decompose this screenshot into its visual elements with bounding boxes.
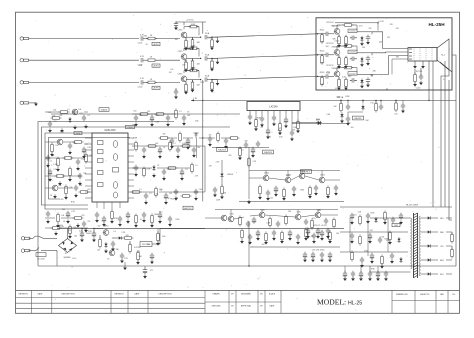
- capacitor pin1 LA7240: [248, 114, 252, 120]
- resistor R28: [55, 175, 66, 178]
- load resistor ch3: [207, 79, 212, 81]
- ground GC8: [296, 240, 300, 244]
- svg-text:0.1: 0.1: [185, 169, 187, 171]
- svg-text:0.1: 0.1: [67, 109, 69, 111]
- resistor R101: [146, 37, 157, 40]
- capacitor RC8: [296, 234, 300, 240]
- ground at Q101 emitter: [184, 46, 188, 50]
- svg-text:0.022: 0.022: [416, 88, 421, 90]
- boxed part number U23: [348, 72, 357, 76]
- svg-text:C945: C945: [296, 212, 300, 214]
- wire y123 to x348 drop: [322, 123, 348, 125]
- transistor Q315: [221, 215, 227, 221]
- wire routing rect third: [45, 133, 92, 209]
- transistor Q101: [181, 32, 187, 38]
- wire diode branch y122: [292, 122, 317, 124]
- capacitor C309: [346, 116, 350, 122]
- secondary load resistor R502: [451, 248, 454, 259]
- ground GT9: [380, 264, 384, 268]
- zener D201: [360, 36, 363, 42]
- capacitor BB2: [351, 271, 355, 277]
- capacitor BB3: [359, 271, 363, 278]
- capacitor BB4: [368, 271, 372, 277]
- svg-text:R203: R203: [320, 72, 325, 74]
- capacitor cluster C91: [306, 228, 310, 235]
- ground G84: [247, 200, 251, 204]
- ground GT3: [383, 220, 387, 224]
- svg-text:104: 104: [362, 47, 365, 49]
- svg-text:C95 C96 470U: C95 C96 470U: [312, 250, 325, 252]
- capacitor C29: [78, 173, 82, 179]
- svg-text:R212 1K: R212 1K: [326, 43, 334, 45]
- wire primary bottom lead: [370, 271, 411, 273]
- svg-text:102: 102: [368, 28, 371, 30]
- svg-text:D880: D880: [104, 226, 109, 228]
- ground GR10: [152, 173, 156, 177]
- connector ground 1: [413, 64, 417, 68]
- capacitor RA9: [334, 185, 338, 191]
- wire row2 collector stubs: [231, 210, 318, 217]
- ground load ch1: [210, 46, 214, 50]
- wire stage ch1 to connector: [357, 31, 372, 33]
- resistor R42: [155, 113, 166, 116]
- svg-text:1/2W: 1/2W: [216, 200, 220, 202]
- svg-text:104: 104: [332, 26, 335, 28]
- ground GIB7: [142, 218, 146, 222]
- ground GC12: [328, 239, 332, 243]
- wire rail y114: [51, 113, 240, 115]
- vertical bus x204 long: [202, 100, 204, 201]
- capacitor C82: [256, 141, 260, 147]
- resistor RC9: [305, 228, 308, 239]
- input cap C201: [326, 32, 328, 36]
- ground ZD401: [104, 249, 108, 253]
- ground D201: [360, 42, 364, 46]
- bridge diode marks: [62, 242, 65, 246]
- svg-text:R202: R202: [320, 50, 325, 52]
- capacitor C23: [48, 121, 52, 127]
- capacitor C44: [182, 115, 186, 121]
- ground D203: [360, 84, 364, 88]
- ground GC3: [256, 236, 260, 240]
- speaker connector block: [408, 48, 437, 62]
- svg-text:C1815: C1815: [320, 174, 325, 176]
- svg-text:HL-25H: HL-25H: [428, 22, 445, 27]
- svg-text:100K: 100K: [191, 24, 196, 26]
- resistor RC4: [265, 232, 268, 243]
- capacitor IB4: [118, 216, 122, 222]
- output cap C211: [350, 36, 356, 40]
- svg-text:2SD880 Y: 2SD880 Y: [331, 68, 341, 70]
- ground G81: [251, 153, 255, 157]
- secondary tap D50: [421, 217, 427, 219]
- capacitor C30: [74, 185, 78, 191]
- wire collector rail row2: [215, 209, 338, 211]
- svg-text:0.022: 0.022: [335, 41, 340, 43]
- wire ground rail y266: [38, 265, 456, 267]
- ground GR5: [142, 154, 146, 158]
- resistor IB3: [111, 210, 114, 221]
- svg-text:APPROVAL: APPROVAL: [241, 305, 251, 308]
- transistor Q312: [259, 212, 265, 218]
- resistor R33: [73, 217, 84, 220]
- svg-text:R/30: R/30: [300, 189, 304, 191]
- wire transformer section rail y252: [340, 251, 408, 253]
- wire row2 stitch: [234, 215, 338, 219]
- svg-text:R/30: R/30: [132, 125, 136, 127]
- boxed label IC305: [301, 170, 312, 174]
- wire vertical bus V1 from connector: [428, 61, 430, 100]
- resistor R62: [359, 235, 362, 246]
- capacitor C60: [350, 213, 354, 220]
- bias resistor R243: [345, 77, 348, 88]
- svg-text:R12: R12: [348, 76, 351, 78]
- svg-text:C945: C945: [370, 212, 374, 214]
- wire vertical bus V4: [452, 55, 456, 266]
- cap C405: [150, 253, 154, 260]
- svg-text:100: 100: [175, 197, 178, 199]
- ground R241: [344, 43, 348, 47]
- wire C103 to R103: [143, 81, 148, 83]
- diode D305: [220, 172, 223, 178]
- diode ZD301: [362, 100, 364, 103]
- svg-text:C945: C945: [175, 219, 179, 221]
- diode D307: [316, 122, 322, 125]
- capacitor C83: [213, 187, 217, 193]
- svg-text:R/30: R/30: [326, 73, 330, 75]
- capacitor C47: [176, 147, 180, 153]
- ground load ch2: [210, 67, 214, 71]
- zener D202: [360, 57, 363, 63]
- svg-text:470: 470: [68, 230, 71, 232]
- output coupling cap C113: [205, 77, 207, 81]
- ground G71: [170, 144, 174, 148]
- wire jack J4 stub: [29, 102, 36, 104]
- AC input jack P1: [21, 237, 30, 240]
- ground G72: [186, 145, 190, 149]
- feedback resistor R222: [343, 45, 354, 48]
- bias resistor R242: [345, 56, 348, 67]
- wire box input node ch2: [317, 54, 318, 55]
- capacitor C103: [141, 80, 143, 84]
- svg-text:C34: C34: [288, 211, 291, 213]
- svg-text:0.1: 0.1: [149, 193, 151, 195]
- wire stub cluster: [307, 228, 309, 229]
- IC1 pin ticks right: [128, 138, 134, 198]
- svg-text:C945: C945: [364, 251, 368, 253]
- svg-text:102: 102: [262, 244, 265, 246]
- resistor R25: [57, 157, 60, 168]
- wire horizontal collector line y207: [340, 206, 452, 208]
- resistor R65: [381, 255, 384, 266]
- transistor Q4: [52, 185, 58, 191]
- wire rail below box: [318, 99, 456, 101]
- svg-text:2SD880 Y: 2SD880 Y: [331, 47, 341, 49]
- resistor R403 vertical: [129, 243, 132, 254]
- svg-text:JAN.: JAN.: [440, 293, 444, 296]
- svg-text:YEL: YEL: [440, 246, 444, 248]
- boxed part number U21: [348, 29, 357, 33]
- value label box ch1: [152, 42, 160, 46]
- capacitor C27: [76, 159, 80, 165]
- ground C410: [143, 274, 147, 278]
- resistor RB1: [239, 216, 242, 227]
- resistor R31: [79, 191, 90, 194]
- svg-text:SHEET NO.: SHEET NO.: [420, 294, 430, 296]
- svg-text:KIA4558: KIA4558: [264, 151, 273, 154]
- svg-text:C945: C945: [229, 214, 233, 216]
- capacitor C21: [82, 115, 86, 121]
- boxed label IC304: [263, 150, 274, 154]
- ground C120: [174, 26, 178, 30]
- capacitor C301: [347, 100, 349, 103]
- regulator resistor R401: [99, 238, 102, 249]
- svg-text:470: 470: [60, 199, 63, 201]
- svg-text:470: 470: [396, 28, 399, 30]
- ground at J4: [34, 102, 38, 106]
- capacitor C63: [399, 213, 403, 220]
- svg-text:KIA78L9: KIA78L9: [302, 170, 311, 173]
- feedback resistor R111: [184, 27, 199, 36]
- wire vertical bus V2: [432, 61, 434, 207]
- wire jack J2 to coupling cap: [29, 59, 139, 61]
- svg-text:102: 102: [229, 155, 232, 157]
- svg-text:104: 104: [97, 250, 100, 252]
- svg-text:S1WB60: S1WB60: [63, 257, 70, 259]
- transistor Q3: [57, 139, 63, 145]
- svg-text:LA7240: LA7240: [269, 105, 278, 108]
- ground GL22: [54, 231, 58, 235]
- wire top rail drop: [377, 23, 379, 31]
- svg-text:104: 104: [61, 215, 64, 217]
- resistor R48: [143, 167, 146, 178]
- ground GL2: [60, 128, 64, 132]
- driver transistor Q201: [334, 28, 340, 34]
- svg-text:R211 1K: R211 1K: [326, 22, 334, 24]
- svg-text:0.1: 0.1: [173, 143, 175, 145]
- AC input jack P2: [21, 249, 30, 252]
- svg-text:100K: 100K: [191, 46, 196, 48]
- power transformer T1 core: [414, 213, 418, 278]
- ground GL9: [56, 167, 60, 171]
- resistor R404: [137, 251, 140, 262]
- svg-text:KIA7805: KIA7805: [354, 117, 361, 120]
- svg-text:0.1: 0.1: [179, 111, 181, 113]
- wire left vertical to rail: [37, 265, 39, 267]
- svg-text:MODEL:: MODEL:: [317, 298, 346, 307]
- capacitor RB5: [276, 221, 280, 227]
- output coupling cap C111: [205, 35, 207, 39]
- wire primary top lead: [370, 217, 411, 219]
- wire ch2 route to connector pin2: [372, 51, 408, 54]
- resistor RC1: [241, 229, 244, 240]
- capacitor C42: [150, 115, 154, 122]
- wire R103 to Q103: [155, 81, 180, 83]
- diode D2: [68, 117, 71, 123]
- value label box ch2: [152, 64, 160, 68]
- capacitor C51: [180, 169, 184, 176]
- wire switch to bridge: [41, 250, 57, 252]
- capacitor C66: [378, 237, 382, 243]
- wire transformer section rail y232: [340, 231, 408, 233]
- resistor R45: [147, 145, 158, 148]
- wire C102 to R102: [143, 59, 148, 61]
- resistor R73: [217, 132, 220, 143]
- capacitor RB9: [324, 218, 328, 224]
- svg-text:NO.: NO.: [452, 294, 456, 296]
- HL-25H enclosure box: [316, 18, 452, 90]
- resistor R71: [159, 137, 170, 140]
- wire preamp rail y100: [191, 99, 318, 101]
- resistor R52: [155, 187, 158, 198]
- capacitor RC11: [320, 230, 324, 237]
- resistor R102: [146, 59, 157, 62]
- resistor R24: [73, 141, 84, 144]
- svg-text:4.7K/2W: 4.7K/2W: [134, 247, 141, 249]
- ground Q203 emitter: [337, 86, 341, 90]
- capacitor C55: [194, 189, 198, 195]
- ground GIB4: [118, 222, 122, 226]
- horn speaker symbol: [437, 39, 449, 70]
- svg-text:REVISION: REVISION: [18, 294, 28, 296]
- svg-text:R/30: R/30: [384, 238, 388, 240]
- svg-text:R/30: R/30: [79, 113, 83, 115]
- capacitor RA7: [314, 185, 318, 191]
- svg-text:C1815: C1815: [127, 127, 133, 129]
- svg-text:104: 104: [147, 244, 150, 246]
- resistor RB6: [285, 215, 288, 226]
- ground GR15: [174, 196, 178, 200]
- feedback resistor R223: [343, 66, 354, 69]
- capacitor BB5: [376, 271, 380, 278]
- shield ground ch3: [216, 81, 220, 85]
- ground GT11: [370, 259, 374, 263]
- ground GT6: [368, 239, 372, 243]
- boxed part number U22: [348, 50, 357, 54]
- resistor R46: [169, 141, 172, 152]
- capacitor IB5: [126, 212, 130, 219]
- boxed label VR1: [74, 131, 82, 135]
- svg-text:R201: R201: [320, 29, 325, 31]
- secondary load resistor R501: [451, 233, 454, 244]
- emitter resistor R122: [185, 59, 187, 62]
- boxed label IC307: [353, 116, 364, 120]
- regulator IC MC7815 box: [140, 242, 152, 247]
- capacitor B3: [320, 252, 324, 258]
- cap C221: [366, 35, 370, 41]
- svg-text:R/30: R/30: [114, 218, 118, 220]
- svg-text:ALPS: ALPS: [153, 65, 159, 68]
- ground at Q103 emitter: [184, 90, 188, 94]
- ground GA9: [334, 191, 338, 195]
- svg-text:HL-25: HL-25: [348, 300, 362, 306]
- capacitor IB7: [142, 212, 146, 218]
- capacitor C71: [170, 138, 174, 144]
- node junction y100 dots: [340, 100, 341, 101]
- capacitor C102: [141, 58, 143, 62]
- wire stage3 output to HL-25H box: [212, 76, 318, 79]
- wire PSU +rail y228: [57, 227, 205, 229]
- svg-text:HL-2: HL-2: [441, 55, 445, 57]
- zener D203: [360, 78, 363, 84]
- capacitor C65: [368, 233, 372, 240]
- svg-text:1/4W: 1/4W: [182, 143, 186, 145]
- wire Q103 to output bus: [186, 79, 201, 81]
- input cap C202: [326, 53, 328, 57]
- ground GR11: [162, 176, 166, 180]
- capacitor pin7 LA7240: [285, 114, 287, 117]
- svg-text:4.7U: 4.7U: [140, 78, 145, 80]
- wire right cluster rails: [132, 114, 205, 192]
- capacitor RC7: [288, 230, 292, 237]
- resistor R301: [340, 100, 342, 103]
- wire reg out: [152, 243, 160, 245]
- svg-text:DRAWING NO.: DRAWING NO.: [396, 293, 409, 296]
- svg-text:KIA4558: KIA4558: [218, 148, 227, 151]
- svg-text:AC 250V: AC 250V: [37, 258, 45, 261]
- capacitor RC2: [248, 234, 252, 240]
- ground GL7: [82, 154, 86, 158]
- ground GA6: [308, 194, 312, 198]
- ground GL12: [58, 181, 62, 185]
- resistor R44: [135, 141, 138, 152]
- capacitor C31: [46, 211, 50, 217]
- capacitor RB3: [252, 217, 256, 224]
- svg-text:D309: D309: [316, 119, 320, 121]
- svg-text:1/4W: 1/4W: [133, 137, 137, 139]
- ground GIB1: [95, 218, 99, 222]
- capacitor C24: [68, 143, 72, 149]
- PSU ground arrow: [123, 266, 127, 270]
- capacitor C33: [82, 221, 86, 227]
- capacitor C74: [224, 138, 228, 144]
- IC1 internal blocks: [98, 141, 119, 199]
- wire vertical bus V5: [444, 61, 446, 207]
- ground Q202 emitter: [337, 64, 341, 68]
- ground G73: [208, 142, 212, 146]
- ground GL16: [64, 195, 68, 199]
- ground GC5: [272, 236, 276, 240]
- transistor Q311: [228, 216, 234, 222]
- IC1 pin ticks left: [85, 138, 92, 198]
- input jack J2: [20, 59, 29, 62]
- resistor RA4: [283, 188, 286, 199]
- ground G74: [224, 144, 228, 148]
- svg-text:470: 470: [335, 88, 338, 90]
- svg-text:0.1: 0.1: [49, 160, 52, 162]
- ground R242: [344, 64, 348, 68]
- svg-text:220: 220: [390, 24, 393, 26]
- svg-text:RED: RED: [440, 232, 445, 234]
- wire row1 collector stubs: [266, 171, 322, 178]
- capacitor C121: [174, 89, 178, 95]
- ground GA3: [274, 192, 278, 196]
- boxed label IC303: [217, 148, 228, 152]
- ground GL20: [66, 219, 70, 223]
- resistor R302: [375, 100, 377, 103]
- capacitor C52: [144, 193, 148, 199]
- transistor Q303: [299, 173, 305, 179]
- ground GC10: [312, 239, 316, 243]
- feedback resistor R221: [343, 24, 354, 27]
- svg-text:R/30: R/30: [371, 268, 375, 270]
- ground GIB5: [126, 219, 130, 223]
- resistor R74: [229, 137, 240, 140]
- svg-text:0.1: 0.1: [140, 219, 143, 221]
- ground GA2: [266, 196, 270, 200]
- capacitor C28: [48, 169, 52, 176]
- svg-text:AN7312: AN7312: [184, 207, 192, 210]
